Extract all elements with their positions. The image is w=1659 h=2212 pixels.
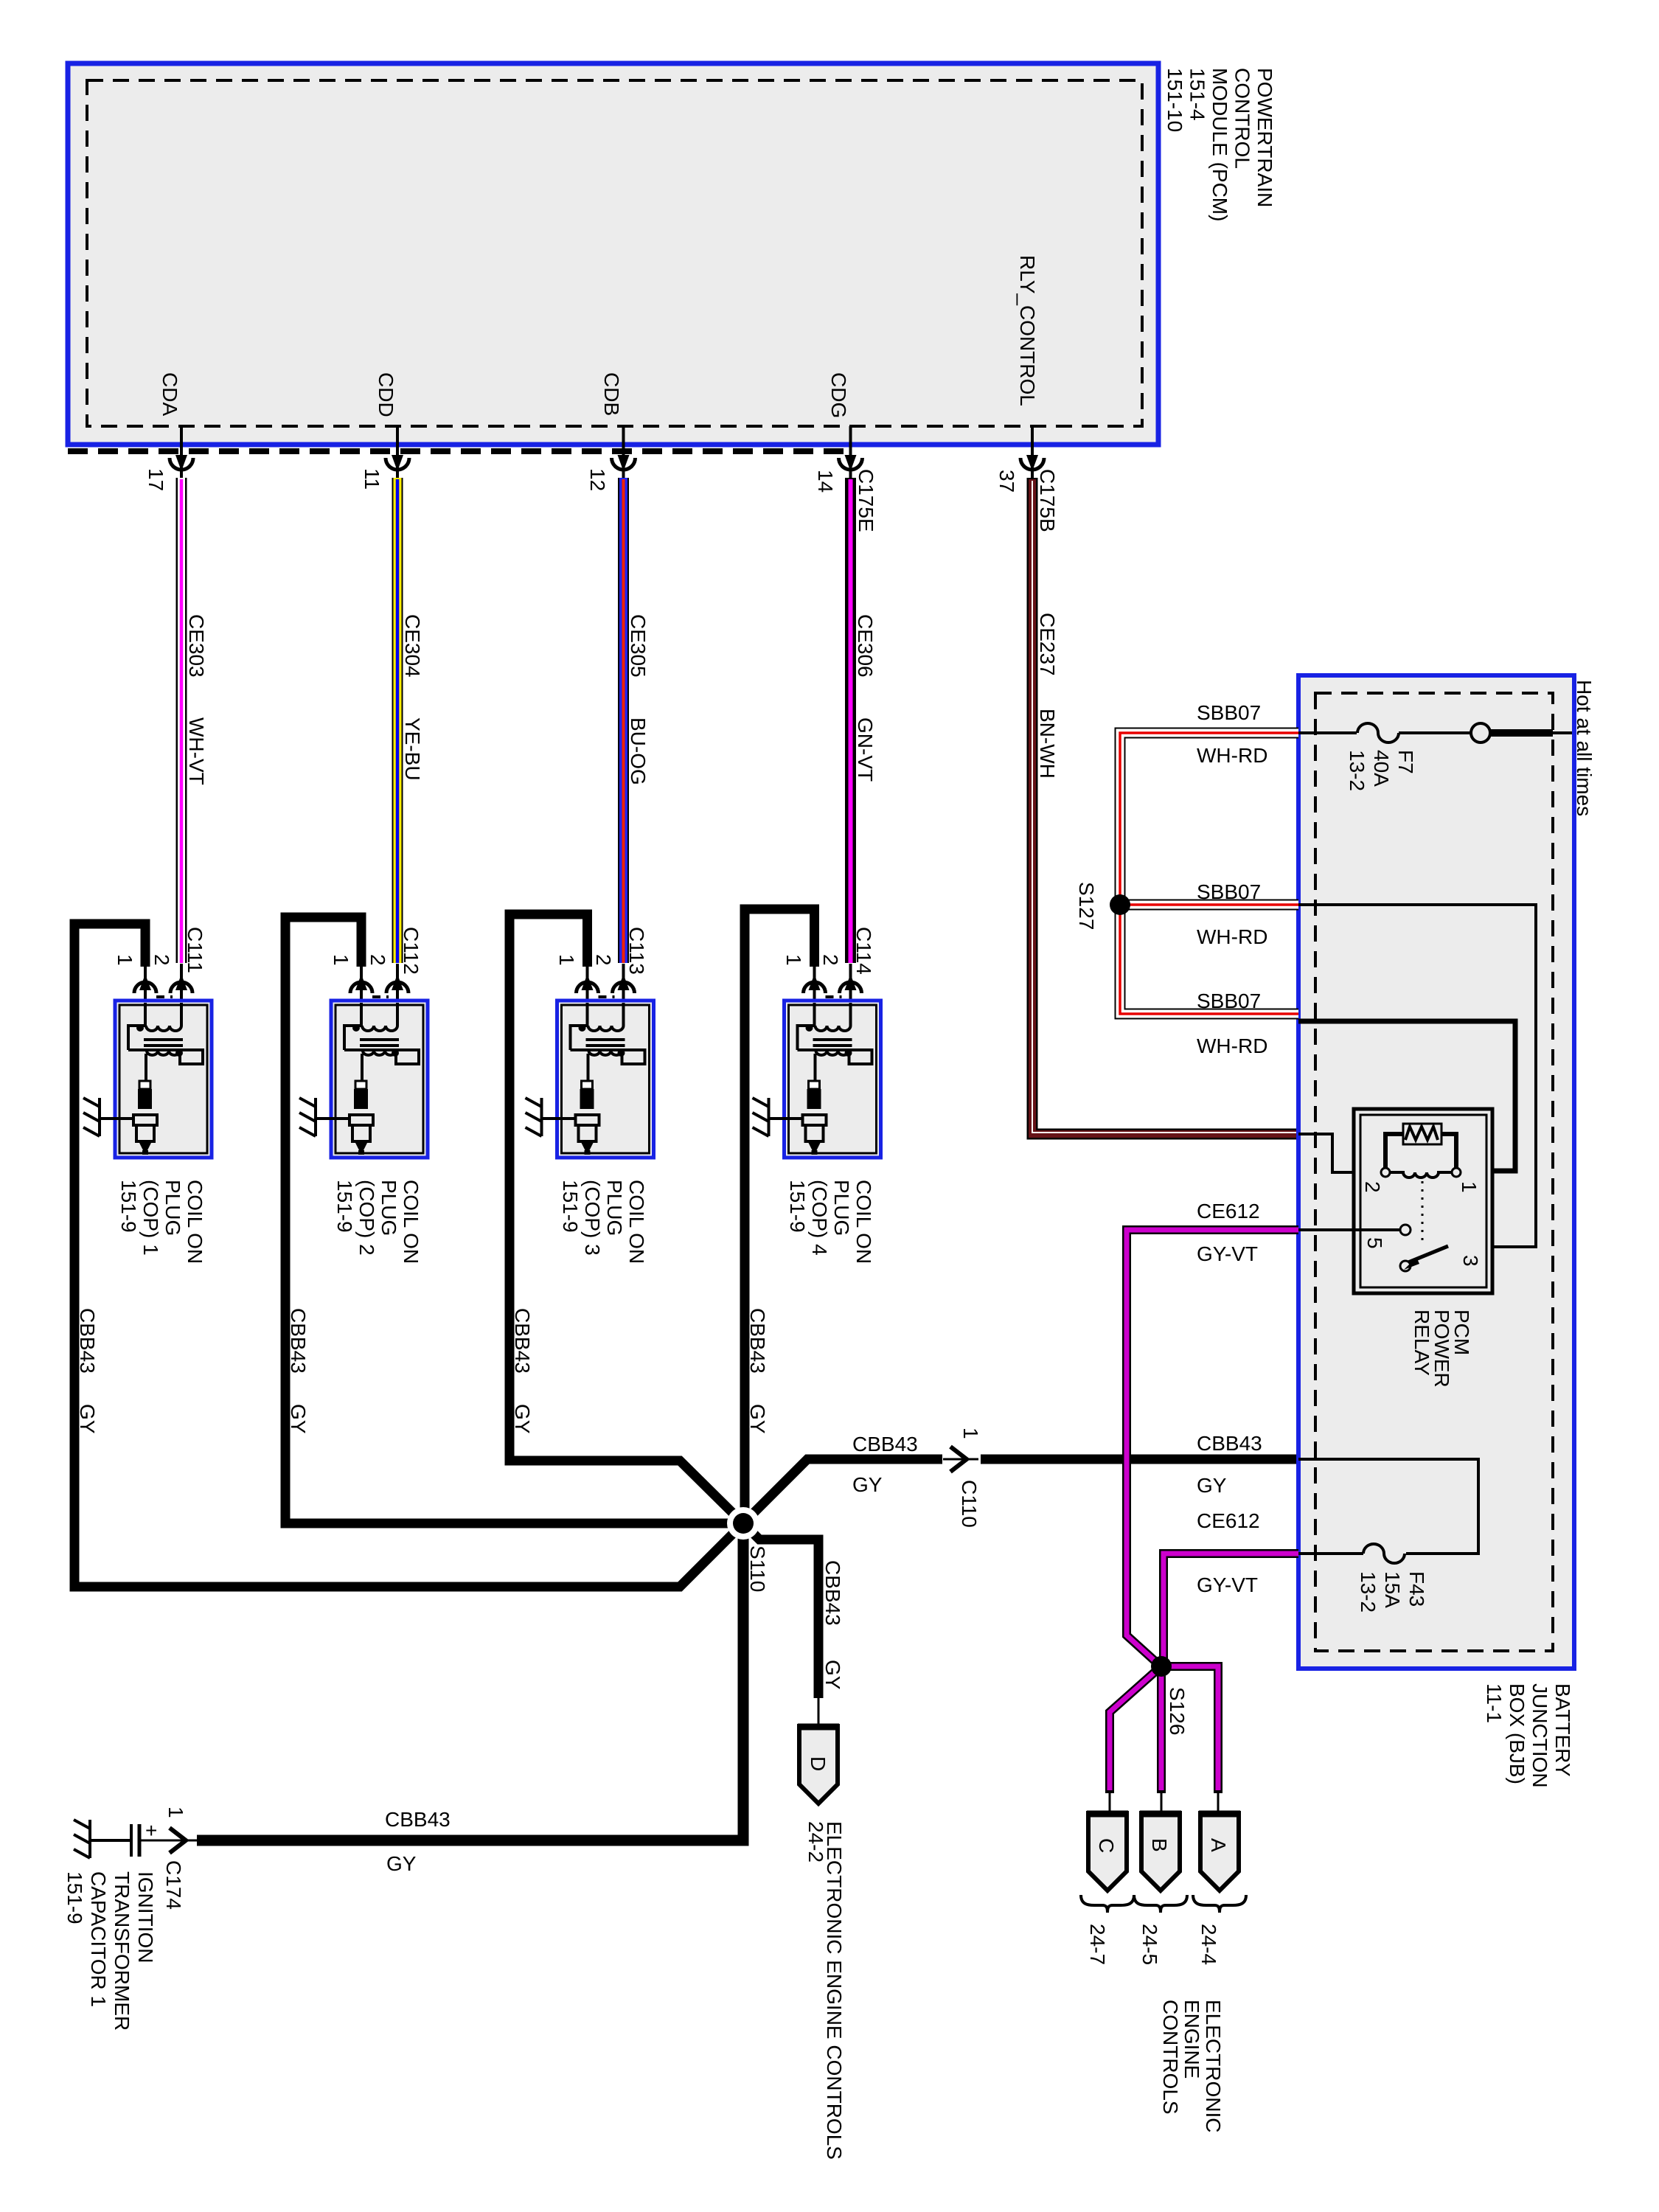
svg-text:2: 2 [592, 954, 615, 966]
svg-text:F7: F7 [1394, 750, 1417, 774]
svg-text:1: 1 [114, 954, 136, 966]
svg-text:CBB43: CBB43 [287, 1308, 310, 1374]
label electronic engine controls right [1159, 2000, 1225, 2132]
pin 12 stub [622, 426, 625, 479]
brace under A [1193, 1895, 1246, 1913]
svg-text:SBB07: SBB07 [1197, 990, 1261, 1012]
svg-text:B: B [1148, 1838, 1171, 1852]
relay switch blade [1408, 1246, 1448, 1262]
relay pin 5 wire [1298, 1228, 1400, 1231]
svg-text:CE303: CE303 [185, 614, 208, 678]
svg-text:CBB43: CBB43 [821, 1560, 844, 1626]
svg-text:CBB43: CBB43 [852, 1433, 918, 1455]
svg-text:13-2: 13-2 [1346, 750, 1368, 791]
svg-text:CBB43: CBB43 [511, 1308, 534, 1374]
svg-text:CAPACITOR 1: CAPACITOR 1 [87, 1871, 110, 2007]
svg-text:15A: 15A [1381, 1571, 1404, 1608]
relay pin 1 label [1458, 1181, 1481, 1193]
relay armature dotted link [1422, 1181, 1424, 1243]
label CBB43 coil4 [746, 1308, 769, 1374]
svg-text:12: 12 [586, 468, 609, 491]
label CE303 [185, 614, 208, 678]
svg-text:37: 37 [995, 470, 1018, 493]
label GY coil3 [511, 1404, 534, 1434]
connector C111 label [184, 927, 206, 973]
svg-text:RLY_CONTROL: RLY_CONTROL [1016, 255, 1039, 406]
svg-text:A: A [1207, 1838, 1230, 1852]
pin 37 arrow [1020, 455, 1044, 471]
svg-text:151-9: 151-9 [559, 1180, 582, 1233]
connector D [798, 1726, 839, 1804]
coil on plug 4 [753, 964, 881, 1158]
svg-text:CE612: CE612 [1197, 1509, 1260, 1532]
svg-text:2: 2 [150, 954, 173, 966]
wire SBB07 middle branch to relay pin 3 [1298, 905, 1536, 1247]
svg-text:13-2: 13-2 [1357, 1571, 1380, 1613]
svg-text:1: 1 [330, 954, 352, 966]
svg-text:2: 2 [366, 954, 389, 966]
brace under B [1134, 1895, 1187, 1913]
inline connector C110 [943, 1447, 978, 1472]
wire CBB43 from S110 to capacitor C174 [197, 1523, 743, 1840]
wire CBB43 inside BJB to fuse F43 [1298, 1459, 1478, 1554]
connector B stub [1157, 1790, 1166, 1793]
svg-text:24-7: 24-7 [1086, 1924, 1109, 1965]
connector C112 label [400, 927, 422, 975]
svg-text:C111: C111 [184, 927, 206, 973]
relay pin 5 terminal [1400, 1225, 1411, 1235]
svg-text:CONTROL: CONTROL [1231, 68, 1254, 169]
svg-text:CE612: CE612 [1197, 1200, 1260, 1222]
connector C113 label [625, 927, 648, 975]
splice S126 [1151, 1656, 1172, 1677]
svg-text:C110: C110 [958, 1480, 981, 1528]
wire CE612 GY-VT from fuse F43 [1164, 1554, 1298, 1659]
svg-text:BN-WH: BN-WH [1036, 709, 1059, 779]
pin 12 arrow [612, 455, 636, 471]
wire WH-RD S127 middle branch [1120, 900, 1298, 911]
fuse F7 [1357, 723, 1399, 742]
svg-text:YE-BU: YE-BU [401, 717, 424, 781]
svg-text:GN-VT: GN-VT [854, 717, 877, 782]
inline connector C174 arrow [162, 1828, 198, 1853]
wire WH-RD S127 trunk [1120, 733, 1298, 1014]
svg-text:3: 3 [1459, 1255, 1482, 1267]
svg-text:(COP) 2: (COP) 2 [355, 1180, 378, 1256]
coil on plug 3 [526, 964, 654, 1158]
connector A stub [1214, 1790, 1222, 1793]
svg-text:GY-VT: GY-VT [1197, 1242, 1258, 1265]
svg-text:CDB: CDB [600, 372, 623, 416]
svg-text:BATTERY: BATTERY [1551, 1683, 1574, 1777]
svg-text:C114: C114 [852, 927, 875, 975]
svg-text:(COP) 3: (COP) 3 [581, 1180, 604, 1256]
BJB inner dashed border [1315, 693, 1553, 1651]
connector C175B label [1036, 469, 1059, 532]
label 24-5 [1138, 1924, 1161, 1965]
svg-text:CBB43: CBB43 [746, 1308, 769, 1374]
svg-text:S110: S110 [746, 1545, 769, 1592]
svg-text:151-4: 151-4 [1186, 68, 1209, 121]
fuse F7 label [1346, 750, 1417, 791]
fuse F7 terminal circle [1471, 723, 1490, 742]
splice S110 label [746, 1545, 769, 1592]
svg-text:1: 1 [959, 1427, 982, 1439]
connector C114 label [852, 927, 875, 975]
pin 11 number [361, 468, 383, 490]
svg-text:MODULE (PCM): MODULE (PCM) [1208, 68, 1231, 221]
svg-text:C113: C113 [625, 927, 648, 975]
pin CDA label [159, 372, 181, 416]
svg-text:Hot at all times: Hot at all times [1573, 680, 1596, 816]
relay coil resistor box [1403, 1124, 1441, 1144]
svg-text:2: 2 [1361, 1181, 1384, 1193]
svg-text:GY-VT: GY-VT [1197, 1573, 1258, 1596]
svg-text:1: 1 [164, 1806, 187, 1818]
connector A [1199, 1813, 1240, 1891]
C174 pin 1 label [164, 1806, 187, 1818]
coil 1 name label [117, 1180, 206, 1264]
svg-text:COIL ON: COIL ON [852, 1180, 875, 1264]
connector C stub [1105, 1790, 1114, 1793]
ignition transformer capacitor label [63, 1871, 157, 2031]
wire CE303 WH-VT [176, 478, 187, 963]
svg-text:11-1: 11-1 [1483, 1683, 1506, 1723]
label GY coil4 [746, 1404, 769, 1434]
svg-text:151-10: 151-10 [1164, 68, 1186, 132]
svg-text:GY: GY [1197, 1474, 1227, 1497]
svg-text:CE306: CE306 [854, 614, 877, 678]
svg-text:C: C [1095, 1838, 1118, 1853]
wire CBB43 from C110 to BJB [981, 1455, 1298, 1464]
svg-text:C175B: C175B [1036, 469, 1059, 532]
svg-text:D: D [807, 1756, 829, 1771]
svg-text:C174: C174 [162, 1860, 185, 1910]
splice S126 label [1166, 1687, 1189, 1735]
svg-text:GY: GY [76, 1404, 99, 1434]
connector B [1140, 1813, 1181, 1891]
pin CDD label [375, 372, 397, 417]
svg-text:1: 1 [1458, 1181, 1481, 1193]
pin 14 number [814, 470, 837, 493]
label CBB43 coil3 [511, 1308, 534, 1374]
svg-text:PLUG: PLUG [378, 1180, 400, 1236]
label CE237 [1036, 613, 1059, 676]
coil 4 pin 1 number [782, 954, 805, 966]
connector D letter [807, 1756, 829, 1771]
svg-text:24-4: 24-4 [1197, 1924, 1220, 1965]
net RLY_CONTROL label [1016, 255, 1039, 406]
svg-text:CDG: CDG [827, 372, 850, 418]
coil 2 name label [333, 1180, 422, 1264]
label WH-VT [185, 717, 208, 785]
pin 11 stub [396, 426, 399, 479]
wire CBB43 coil2 ground return [285, 917, 743, 1523]
wire CBB43 branch to connector D [743, 1523, 818, 1698]
splice S127 label [1075, 882, 1098, 930]
label CBB43 on D branch [821, 1560, 844, 1626]
svg-text:CBB43: CBB43 [76, 1308, 99, 1374]
svg-text:CBB43: CBB43 [1197, 1432, 1262, 1455]
relay coil wire [1385, 1134, 1403, 1171]
pin 14 stub [849, 426, 852, 479]
pin 17 arrow [170, 455, 193, 471]
svg-text:40A: 40A [1370, 750, 1393, 787]
coil 4 name label [786, 1180, 875, 1264]
svg-text:CONTROLS: CONTROLS [1159, 2000, 1182, 2115]
svg-text:WH-RD: WH-RD [1197, 1034, 1267, 1057]
svg-text:GY: GY [287, 1404, 310, 1434]
wire CBB43 coil3 ground return [509, 914, 743, 1523]
connector C [1087, 1813, 1128, 1891]
wire BN-WH link to relay coil pin 2 [1298, 1134, 1381, 1172]
connector D stub [818, 1698, 820, 1727]
coil 3 pin 1 number [555, 954, 578, 966]
label CBB43 coil1 [76, 1308, 99, 1374]
coil 1 pin 1 number [114, 954, 136, 966]
svg-text:S126: S126 [1166, 1687, 1189, 1735]
svg-text:GY: GY [852, 1473, 883, 1496]
splice S127 [1110, 894, 1130, 915]
svg-text:1: 1 [782, 954, 805, 966]
fuse F43 [1363, 1544, 1405, 1563]
svg-text:WH-RD: WH-RD [1197, 744, 1267, 767]
PCM inner dashed border [87, 80, 1142, 426]
connector C letter [1095, 1838, 1118, 1853]
label BU-OG [627, 717, 650, 785]
pin 17 number [145, 468, 167, 491]
PCM label [1164, 68, 1276, 221]
svg-text:POWERTRAIN: POWERTRAIN [1253, 68, 1276, 207]
wire GY-VT to connector A [1161, 1666, 1218, 1793]
wire CE304 YE-BU [392, 478, 403, 963]
label 24-4 [1197, 1924, 1220, 1965]
svg-text:CE237: CE237 [1036, 613, 1059, 676]
svg-text:PLUG: PLUG [830, 1180, 853, 1236]
brace under C [1081, 1895, 1134, 1913]
label Hot at all times [1573, 680, 1596, 816]
svg-text:GY: GY [511, 1404, 534, 1434]
svg-text:151-9: 151-9 [786, 1180, 809, 1233]
svg-text:14: 14 [814, 470, 837, 493]
label YE-BU [401, 717, 424, 781]
connector A letter [1207, 1838, 1230, 1852]
svg-text:RELAY: RELAY [1411, 1310, 1433, 1376]
svg-text:PLUG: PLUG [161, 1180, 184, 1236]
wire GY-VT to connector B [1157, 1666, 1166, 1793]
svg-text:COIL ON: COIL ON [184, 1180, 206, 1264]
connector C110 label [958, 1480, 981, 1528]
pin 14 arrow [839, 455, 863, 471]
svg-text:TRANSFORMER: TRANSFORMER [111, 1871, 133, 2031]
capacitor C174 plates [130, 1824, 133, 1857]
coil 1 pin 2 number [150, 954, 173, 966]
svg-text:GY: GY [746, 1404, 769, 1434]
svg-text:C112: C112 [400, 927, 422, 975]
capacitor C174 ground [74, 1820, 90, 1858]
svg-text:24-2: 24-2 [804, 1821, 827, 1863]
pin CDB label [600, 372, 623, 416]
coil on plug 2 [299, 964, 428, 1158]
svg-text:CBB43: CBB43 [385, 1808, 451, 1831]
label 24-7 [1086, 1924, 1109, 1965]
pin CDG label [827, 372, 850, 418]
svg-text:2: 2 [819, 954, 842, 966]
battery junction box [1298, 675, 1574, 1669]
wire GY-VT to connector C [1110, 1671, 1156, 1793]
relay winding [1390, 1172, 1452, 1178]
coil 3 name label [559, 1180, 648, 1264]
coil 4 pin 2 number [819, 954, 842, 966]
PCM power relay box [1354, 1109, 1492, 1293]
PCM powertrain control module box [68, 63, 1158, 445]
wire CE237 BN-WH [1032, 478, 1298, 1134]
svg-text:WH-RD: WH-RD [1197, 925, 1267, 948]
label electronic engine controls 24-2 [804, 1821, 846, 2160]
pin 11 arrow [386, 455, 409, 471]
connector C174 label [162, 1860, 185, 1910]
svg-text:PLUG: PLUG [603, 1180, 626, 1236]
svg-text:BU-OG: BU-OG [627, 717, 650, 785]
svg-text:ENGINE: ENGINE [1180, 2000, 1203, 2079]
svg-text:151-9: 151-9 [117, 1180, 140, 1233]
fuse F7 wire [1298, 731, 1357, 734]
label BN-WH [1036, 709, 1059, 779]
wire CBB43 coil1 ground return [74, 924, 743, 1587]
svg-text:IGNITION: IGNITION [134, 1871, 157, 1963]
wire CE612 GY-VT from relay pin 5 [1127, 1230, 1298, 1663]
label CE306 [854, 614, 877, 678]
battery feed bar [1490, 729, 1553, 737]
relay pin 2 label [1361, 1181, 1384, 1193]
fuse F43 label [1357, 1571, 1428, 1613]
svg-text:5: 5 [1363, 1237, 1386, 1249]
svg-text:ELECTRONIC: ELECTRONIC [1202, 2000, 1225, 2132]
relay name label [1411, 1310, 1473, 1388]
label CBB43 coil2 [287, 1308, 310, 1374]
svg-text:(COP) 1: (COP) 1 [139, 1180, 162, 1256]
svg-text:COIL ON: COIL ON [625, 1180, 648, 1264]
relay switch pivot [1400, 1261, 1411, 1271]
coil 3 pin 2 number [592, 954, 615, 966]
svg-text:SBB07: SBB07 [1197, 880, 1261, 903]
svg-text:S127: S127 [1075, 882, 1098, 930]
svg-text:17: 17 [145, 468, 167, 491]
svg-text:CDA: CDA [159, 372, 181, 416]
svg-text:151-9: 151-9 [63, 1871, 86, 1924]
label GY coil1 [76, 1404, 99, 1434]
pin 17 stub [180, 426, 183, 479]
svg-text:CDD: CDD [375, 372, 397, 417]
svg-text:11: 11 [361, 468, 383, 490]
svg-text:(COP) 4: (COP) 4 [808, 1180, 831, 1256]
svg-text:GY: GY [386, 1852, 417, 1875]
label CE304 [401, 614, 424, 678]
svg-text:F43: F43 [1405, 1571, 1428, 1607]
coil 2 pin 2 number [366, 954, 389, 966]
splice S110 [727, 1507, 759, 1540]
coil on plug 1 [83, 964, 212, 1158]
wire CBB43 coil4 ground return [745, 909, 815, 1523]
svg-text:1: 1 [555, 954, 578, 966]
BJB label [1483, 1683, 1574, 1788]
connector C175E dashed line [68, 448, 846, 454]
relay pin 5 label [1363, 1237, 1386, 1249]
relay pin 3 label [1459, 1255, 1482, 1267]
svg-text:SBB07: SBB07 [1197, 701, 1261, 724]
svg-text:COIL ON: COIL ON [400, 1180, 422, 1264]
svg-text:ELECTRONIC ENGINE CONTROLS: ELECTRONIC ENGINE CONTROLS [823, 1821, 846, 2160]
capacitor C174 lead [90, 1839, 130, 1842]
svg-text:24-5: 24-5 [1138, 1924, 1161, 1965]
relay pin 2 terminal [1381, 1168, 1390, 1177]
svg-text:GY: GY [821, 1660, 844, 1690]
svg-text:WH-VT: WH-VT [185, 717, 208, 785]
svg-text:JUNCTION: JUNCTION [1528, 1683, 1551, 1788]
label GY coil2 [287, 1404, 310, 1434]
wire CBB43 from S110 to C110 [743, 1459, 942, 1523]
coil 2 pin 1 number [330, 954, 352, 966]
label CE305 [627, 614, 650, 678]
svg-text:C175E: C175E [855, 469, 877, 532]
connector B letter [1148, 1838, 1171, 1852]
wire CE305 BU-OG [618, 478, 629, 963]
svg-text:CE305: CE305 [627, 614, 650, 678]
label GY on D branch [821, 1660, 844, 1690]
C110 pin 1 label [959, 1427, 982, 1439]
wire CE306 GN-VT [845, 478, 856, 963]
pin 37 number [995, 470, 1018, 493]
pin 12 number [586, 468, 609, 491]
svg-text:151-9: 151-9 [333, 1180, 356, 1233]
wire SBB07 bottom branch to relay pin 1 [1298, 1021, 1515, 1171]
svg-text:CE304: CE304 [401, 614, 424, 678]
svg-text:+: + [145, 1819, 157, 1842]
relay pin 1 terminal [1452, 1168, 1461, 1177]
svg-text:BOX (BJB): BOX (BJB) [1506, 1683, 1528, 1784]
pin 37 stub [1031, 426, 1034, 479]
connector C175E label [855, 469, 877, 532]
label GN-VT [854, 717, 877, 782]
